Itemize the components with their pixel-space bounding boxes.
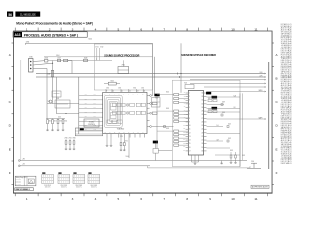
svg-text:a15: a15 bbox=[183, 142, 185, 144]
svg-text:9: 9 bbox=[209, 197, 211, 201]
svg-text:1-C5: 1-C5 bbox=[288, 115, 291, 117]
component 7620 box bbox=[185, 85, 194, 89]
vertical bus drop x152.5 bbox=[152, 43, 154, 96]
svg-text:2-F6: 2-F6 bbox=[260, 90, 263, 92]
wire junction up bbox=[52, 61, 54, 64]
svg-text:43n: 43n bbox=[85, 107, 87, 109]
small parts box left of decoder bbox=[152, 98, 161, 108]
IC 7740 body bbox=[103, 92, 147, 133]
svg-text:2147: 2147 bbox=[57, 58, 61, 60]
control block bbox=[84, 119, 99, 127]
IC 7740 nested block 1 bbox=[104, 95, 122, 127]
frame row ticks bbox=[12, 43, 275, 185]
vertical wire x129 below IC bbox=[128, 134, 130, 158]
IC 7740 nested block 2 bbox=[106, 97, 121, 125]
svg-text:4-C6: 4-C6 bbox=[288, 152, 291, 154]
resistor stack group 2 bbox=[174, 110, 179, 112]
crossing hops on buses bbox=[177, 73, 179, 75]
svg-text:A13: A13 bbox=[15, 33, 21, 37]
wire main bus y76.4 bbox=[36, 76, 265, 78]
transistor circuit bottom right bbox=[247, 167, 261, 169]
svg-text:3617: 3617 bbox=[208, 98, 211, 100]
svg-text:9-D6: 9-D6 bbox=[288, 102, 291, 104]
svg-text:+8V: +8V bbox=[22, 158, 25, 160]
svg-text:8-B: 8-B bbox=[94, 116, 96, 118]
svg-text:6104: 6104 bbox=[89, 39, 93, 41]
IC 7740 top inner pin names bbox=[105, 94, 144, 96]
sheet label A13 black box bbox=[13, 32, 22, 37]
IC 7740 right pin circles bbox=[147, 95, 152, 128]
svg-text:B: B bbox=[9, 77, 11, 81]
svg-text:14: 14 bbox=[144, 91, 146, 93]
capacitor 2147 bbox=[58, 59, 61, 61]
highlighted designator 7611 bbox=[206, 92, 211, 95]
bottom column numbers 1-11 bbox=[26, 197, 258, 201]
right edge arrows and labels bbox=[260, 72, 263, 120]
drop value labels bbox=[49, 121, 68, 123]
misc value labels bbox=[47, 58, 254, 162]
cluster 7750 box bbox=[73, 174, 85, 183]
highlighted designator 7610 bbox=[155, 94, 160, 97]
wire y60.5 from input bbox=[48, 60, 112, 62]
cluster 7740 box bbox=[42, 174, 54, 183]
svg-text:4-C6: 4-C6 bbox=[288, 163, 291, 165]
svg-text:9: 9 bbox=[209, 27, 211, 31]
svg-text:1: 1 bbox=[26, 197, 28, 201]
svg-text:1-C5: 1-C5 bbox=[288, 81, 291, 83]
cluster 7600 box bbox=[58, 174, 70, 183]
svg-text:DBX IN 44: DBX IN 44 bbox=[281, 123, 288, 125]
vertical wire x240 bbox=[239, 93, 241, 166]
svg-text:2751: 2751 bbox=[120, 136, 123, 138]
svg-text:3741: 3741 bbox=[95, 46, 98, 48]
IC 7600 right pins bbox=[204, 93, 207, 151]
filter box 1 with parts bbox=[52, 91, 61, 97]
IC 7740 right column blocks bbox=[136, 103, 140, 106]
decoder right wire labels bbox=[217, 90, 261, 142]
svg-text:1-C5: 1-C5 bbox=[288, 150, 291, 152]
svg-text:SOUND MULTIPLEX DECODER: SOUND MULTIPLEX DECODER bbox=[181, 54, 216, 57]
svg-text:4: 4 bbox=[95, 197, 97, 201]
svg-text:1-C5: 1-C5 bbox=[288, 92, 291, 94]
resistor stack group 1 bbox=[174, 94, 179, 96]
svg-text:2101 2102: 2101 2102 bbox=[44, 185, 51, 187]
svg-text:5-B: 5-B bbox=[94, 103, 96, 105]
svg-text:9-D6: 9-D6 bbox=[288, 33, 291, 35]
svg-text:SIF 4.5MZ: SIF 4.5MZ bbox=[281, 87, 288, 89]
svg-text:2-F6: 2-F6 bbox=[260, 75, 263, 77]
row letters A-F left and right bbox=[9, 53, 279, 175]
svg-text:E: E bbox=[276, 147, 278, 151]
IC 7740 nested block 4 bbox=[109, 101, 117, 121]
resistor 3149 bbox=[84, 59, 88, 61]
svg-text:3151: 3151 bbox=[49, 121, 52, 123]
component 7741 box bbox=[118, 67, 129, 74]
svg-text:9-D6: 9-D6 bbox=[288, 159, 291, 161]
svg-text:2201 2202: 2201 2202 bbox=[61, 185, 68, 187]
svg-text:3601: 3601 bbox=[166, 92, 169, 94]
svg-text:7620: 7620 bbox=[184, 83, 187, 85]
svg-text:TDA9840: TDA9840 bbox=[117, 128, 125, 131]
svg-text:2-F6: 2-F6 bbox=[260, 117, 263, 119]
svg-text:2-F: 2-F bbox=[234, 107, 236, 109]
svg-text:4-C6: 4-C6 bbox=[288, 140, 291, 142]
wire top bus y43 bbox=[25, 42, 152, 44]
filter box 2 bbox=[55, 100, 70, 108]
wire y113.5 to pin bus bbox=[56, 113, 79, 115]
svg-text:7: 7 bbox=[163, 197, 165, 201]
bottom right sheet reference box bbox=[251, 185, 269, 188]
capacitors right of decoder bbox=[221, 104, 223, 106]
svg-text:2622: 2622 bbox=[228, 138, 231, 140]
svg-text:7610: 7610 bbox=[155, 98, 158, 100]
IC 7740 nested block 3 bbox=[108, 99, 119, 123]
resistor stack group 3 bbox=[174, 130, 179, 132]
svg-text:SIF 4.5MZ: SIF 4.5MZ bbox=[281, 142, 288, 144]
chassis name bar bbox=[15, 12, 40, 17]
wire box to rail bbox=[155, 153, 157, 160]
parts under designator 3616 bbox=[208, 111, 212, 113]
group box sound source processor bbox=[94, 44, 152, 90]
svg-text:9-D6: 9-D6 bbox=[288, 91, 291, 93]
svg-text:46n: 46n bbox=[85, 120, 87, 122]
svg-text:a13: a13 bbox=[183, 135, 185, 137]
legend symbol bbox=[28, 179, 34, 184]
svg-text:9-D6: 9-D6 bbox=[288, 148, 291, 150]
svg-text:a17: a17 bbox=[183, 150, 185, 152]
svg-text:SIF INPUT: SIF INPUT bbox=[281, 64, 288, 66]
ground stub on rail bbox=[221, 161, 223, 162]
stack feed wires bbox=[157, 94, 174, 96]
svg-text:13: 13 bbox=[137, 91, 139, 93]
svg-text:a11: a11 bbox=[183, 128, 185, 130]
svg-text:56: 56 bbox=[8, 13, 12, 17]
wire supply rail y160 bbox=[20, 160, 248, 162]
svg-text:3104: 3104 bbox=[56, 55, 60, 57]
svg-text:3609: 3609 bbox=[166, 128, 169, 130]
svg-text:47n: 47n bbox=[85, 124, 87, 126]
svg-text:+5V: +5V bbox=[22, 163, 25, 165]
svg-text:44n: 44n bbox=[85, 111, 87, 113]
svg-text:1-C5: 1-C5 bbox=[288, 127, 291, 129]
svg-text:4-C6: 4-C6 bbox=[288, 117, 291, 119]
svg-text:3: 3 bbox=[72, 197, 74, 201]
svg-text:2621: 2621 bbox=[228, 124, 231, 126]
svg-text:3605: 3605 bbox=[166, 108, 169, 110]
svg-text:7630: 7630 bbox=[251, 161, 254, 163]
cluster 7610 highlighted label bbox=[88, 172, 91, 173]
svg-text:4-C6: 4-C6 bbox=[288, 60, 291, 62]
right frame border bbox=[271, 31, 274, 193]
wire y56.8 bbox=[44, 56, 153, 58]
top ruler line bbox=[13, 30, 272, 33]
rail terminal circles bbox=[18, 160, 20, 162]
tick at start of top bus bbox=[24, 43, 26, 45]
highlighted designator 3616 bbox=[212, 107, 218, 110]
svg-text:4-C6: 4-C6 bbox=[288, 49, 291, 51]
svg-text:7: 7 bbox=[163, 27, 165, 31]
component box below designator bbox=[153, 149, 158, 154]
svg-text:4-C6: 4-C6 bbox=[288, 26, 291, 28]
svg-text:4-E: 4-E bbox=[217, 140, 219, 142]
svg-text:SOUND SOURCE PROCESSOR: SOUND SOURCE PROCESSOR bbox=[104, 55, 139, 58]
top column numbers 1-11 bbox=[26, 27, 258, 31]
svg-text:3146: 3146 bbox=[47, 74, 51, 76]
IC 7740 matrix row 2 bbox=[113, 111, 117, 114]
svg-text:7146: 7146 bbox=[47, 101, 50, 103]
parts under designator 3615 bbox=[208, 100, 212, 102]
resistor 3147 bbox=[64, 59, 68, 61]
svg-text:a10: a10 bbox=[183, 124, 185, 126]
svg-text:100n 47u: 100n 47u bbox=[91, 187, 97, 189]
svg-text:10: 10 bbox=[112, 91, 114, 93]
svg-text:11: 11 bbox=[121, 91, 123, 93]
svg-text:5104: 5104 bbox=[126, 156, 129, 158]
svg-text:2745: 2745 bbox=[141, 87, 144, 89]
wire main bus y72.6 bbox=[36, 73, 265, 75]
svg-text:10: 10 bbox=[231, 197, 235, 201]
svg-text:3148: 3148 bbox=[56, 98, 59, 100]
svg-text:2619: 2619 bbox=[222, 102, 225, 104]
svg-text:1-D: 1-D bbox=[217, 125, 219, 127]
svg-text:4-C6: 4-C6 bbox=[288, 37, 291, 39]
svg-text:4-C6: 4-C6 bbox=[288, 106, 291, 108]
group inner vertical x242.5 bbox=[242, 93, 244, 160]
svg-text:Mono Painel: Processamento de: Mono Painel: Processamento de Audio (Ste… bbox=[16, 21, 93, 25]
svg-text:4-C6: 4-C6 bbox=[288, 129, 291, 131]
svg-text:a12: a12 bbox=[183, 132, 185, 134]
svg-text:9-D6: 9-D6 bbox=[288, 125, 291, 127]
svg-text:9-D6: 9-D6 bbox=[288, 113, 291, 115]
right bus wires upper bbox=[190, 79, 265, 81]
svg-text:4-B: 4-B bbox=[94, 98, 96, 100]
resistors right of IC 7740 bbox=[152, 102, 157, 104]
drop B x56.3 bbox=[55, 77, 57, 114]
caps below IC7740 pins bbox=[120, 138, 122, 143]
svg-text:11: 11 bbox=[254, 27, 257, 31]
cluster 7600 highlighted label bbox=[58, 172, 61, 173]
svg-text:8: 8 bbox=[186, 197, 188, 201]
svg-text:45n: 45n bbox=[85, 116, 87, 118]
svg-text:3153: 3153 bbox=[59, 121, 62, 123]
left frame border bbox=[12, 31, 15, 193]
svg-text:3625: 3625 bbox=[230, 150, 233, 152]
svg-text:6-B: 6-B bbox=[94, 107, 96, 109]
svg-text:5: 5 bbox=[118, 27, 120, 31]
svg-text:1-C5: 1-C5 bbox=[288, 161, 291, 163]
svg-text:11: 11 bbox=[254, 197, 257, 201]
group box sound multiplex decoder bbox=[172, 80, 240, 166]
svg-text:a16: a16 bbox=[183, 146, 185, 148]
bottom ruler line bbox=[13, 193, 272, 194]
svg-text:3-B: 3-B bbox=[94, 94, 96, 96]
svg-text:2: 2 bbox=[49, 197, 51, 201]
svg-text:4-C6: 4-C6 bbox=[288, 72, 291, 74]
svg-text:F: F bbox=[9, 171, 11, 175]
svg-text:1-C5: 1-C5 bbox=[288, 138, 291, 140]
svg-text:6: 6 bbox=[140, 197, 142, 201]
wire bus to drops bbox=[51, 103, 53, 105]
component 7445 bbox=[108, 82, 116, 85]
IC 7600 left pins bbox=[186, 93, 189, 151]
IC 7740 bottom-left extension bbox=[75, 128, 102, 136]
svg-text:1: 1 bbox=[26, 27, 28, 31]
IC 7600 left pin name labels bbox=[183, 92, 185, 152]
pin bus vertical x78.8 bbox=[78, 77, 80, 134]
drop A x52.5 with series resistor bbox=[52, 63, 54, 103]
caps at decoder bottom bbox=[230, 152, 232, 155]
svg-text:40n: 40n bbox=[85, 94, 87, 96]
wire y103.5 to pin bus bbox=[47, 103, 79, 105]
vertical wire x157 bbox=[156, 96, 158, 148]
svg-text:9-D6: 9-D6 bbox=[288, 79, 291, 81]
svg-text:3: 3 bbox=[72, 27, 74, 31]
svg-text:2743: 2743 bbox=[118, 87, 121, 89]
connector 1745 bbox=[29, 59, 34, 73]
highlighted designator 3615 bbox=[212, 96, 218, 99]
svg-text:1-C5: 1-C5 bbox=[288, 58, 291, 60]
vertical bus drop x154.5 bbox=[154, 57, 156, 96]
svg-text:2301 2302: 2301 2302 bbox=[76, 185, 83, 187]
wire supply rail y165 bbox=[20, 165, 151, 167]
svg-text:SOUND: SOUND bbox=[89, 121, 95, 123]
svg-text:DBX IN 44: DBX IN 44 bbox=[281, 68, 288, 70]
wire from designator area bbox=[155, 144, 157, 149]
top ruler ticks bbox=[15, 28, 267, 31]
junction y113.5 bbox=[65, 113, 66, 114]
svg-text:5: 5 bbox=[118, 197, 120, 201]
IC bottom pin drops with grounds bbox=[106, 138, 108, 145]
svg-text:1-C5: 1-C5 bbox=[288, 47, 291, 49]
junction node bbox=[52, 63, 53, 64]
svg-text:7445: 7445 bbox=[110, 80, 114, 82]
svg-text:48n: 48n bbox=[85, 129, 87, 131]
svg-text:3744: 3744 bbox=[133, 87, 136, 89]
svg-text:9-D6: 9-D6 bbox=[288, 68, 291, 70]
svg-text:2752: 2752 bbox=[125, 141, 128, 143]
svg-text:100n: 100n bbox=[58, 117, 61, 119]
svg-text:9-D6: 9-D6 bbox=[288, 136, 291, 138]
svg-text:1-C5: 1-C5 bbox=[288, 24, 291, 26]
wire stub 7741 bbox=[122, 60, 124, 66]
svg-text:1746: 1746 bbox=[29, 57, 33, 59]
svg-text:6: 6 bbox=[140, 27, 142, 31]
transistor 7146 circle bbox=[49, 100, 52, 103]
svg-text:2146: 2146 bbox=[44, 58, 48, 60]
svg-text:3618: 3618 bbox=[208, 109, 211, 111]
svg-text:4-C6: 4-C6 bbox=[288, 94, 291, 96]
svg-text:B: B bbox=[276, 77, 278, 81]
svg-text:2401 2402: 2401 2402 bbox=[91, 185, 98, 187]
svg-text:1-C5: 1-C5 bbox=[288, 104, 291, 106]
vertical wire x181 bbox=[180, 43, 182, 93]
svg-text:F: F bbox=[276, 171, 278, 175]
svg-text:E96 123 09060.1: E96 123 09060.1 bbox=[16, 189, 31, 191]
highlighted designator 7705 bbox=[153, 141, 158, 144]
IC 7740 bottom inner pin names bbox=[105, 132, 144, 134]
svg-text:3154: 3154 bbox=[64, 121, 67, 123]
svg-text:4-C6: 4-C6 bbox=[288, 83, 291, 85]
bottom ruler ticks bbox=[15, 193, 267, 196]
svg-text:3152: 3152 bbox=[54, 121, 57, 123]
IC 7740 lower small boxes bbox=[107, 120, 111, 123]
cluster 7610 box bbox=[88, 174, 100, 183]
svg-text:42n: 42n bbox=[85, 103, 87, 105]
IC 7740 top pins bbox=[106, 89, 143, 92]
connector pin wires bbox=[33, 60, 45, 63]
svg-text:8: 8 bbox=[186, 27, 188, 31]
svg-text:a14: a14 bbox=[183, 139, 185, 141]
group outer bottom line bbox=[148, 167, 251, 169]
svg-text:1-C5: 1-C5 bbox=[288, 70, 291, 72]
net cross-reference label column bbox=[281, 23, 292, 165]
IC 7740 innermost content bbox=[110, 103, 116, 110]
legend notes box bbox=[15, 176, 36, 186]
drawing number label bbox=[15, 188, 34, 191]
svg-text:100n 47u: 100n 47u bbox=[76, 187, 82, 189]
svg-text:2623: 2623 bbox=[242, 155, 245, 157]
junction x181 bus bbox=[180, 73, 181, 74]
wire box to group bbox=[158, 150, 172, 152]
grey collector bar bbox=[268, 62, 269, 169]
svg-text:9-D6: 9-D6 bbox=[288, 56, 291, 58]
wire y126.5 with transistor bbox=[152, 126, 174, 128]
svg-text:10: 10 bbox=[231, 27, 235, 31]
svg-text:100n 47u: 100n 47u bbox=[61, 187, 67, 189]
decoder right-side wires bbox=[207, 91, 266, 93]
IC 7740 matrix row 1 bbox=[113, 103, 117, 106]
pin wires to IC7740 with labels bbox=[79, 96, 103, 131]
svg-text:2: 2 bbox=[49, 27, 51, 31]
svg-text:1-C5: 1-C5 bbox=[288, 35, 291, 37]
svg-text:12: 12 bbox=[129, 91, 131, 93]
capacitor 2146 bbox=[45, 59, 48, 62]
svg-text:CONTROL: CONTROL bbox=[88, 124, 95, 126]
svg-text:CL 96532132E: CL 96532132E bbox=[20, 14, 36, 17]
svg-text:2-F6: 2-F6 bbox=[260, 72, 263, 74]
svg-text:2620: 2620 bbox=[222, 112, 225, 114]
IC 7740 bottom pins bbox=[107, 134, 145, 138]
svg-text:100n 47u: 100n 47u bbox=[45, 187, 51, 189]
svg-text:E: E bbox=[9, 147, 11, 151]
page number box bbox=[7, 12, 13, 17]
svg-text:7-B: 7-B bbox=[94, 111, 96, 113]
svg-text:3742: 3742 bbox=[100, 46, 103, 48]
svg-text:41n: 41n bbox=[85, 98, 87, 100]
svg-text:4: 4 bbox=[95, 27, 97, 31]
svg-text:9-D6: 9-D6 bbox=[288, 45, 291, 47]
svg-text:PROCESS. AUDIO (STEREO + SAP ): PROCESS. AUDIO (STEREO + SAP ) bbox=[24, 33, 78, 37]
svg-text:3149: 3149 bbox=[84, 57, 88, 59]
highlighted designator on extension bbox=[80, 128, 84, 130]
resistor drops with grounds bbox=[46, 118, 65, 120]
IC 7600 bottom pin drops bbox=[191, 155, 193, 162]
wire to bus bbox=[68, 60, 72, 62]
legend item rows bbox=[16, 178, 21, 186]
svg-text:11-B: 11-B bbox=[94, 129, 97, 131]
svg-text:2742: 2742 bbox=[106, 87, 109, 89]
svg-text:1746: 1746 bbox=[26, 42, 30, 44]
svg-text:SIF INPUT: SIF INPUT bbox=[281, 119, 288, 121]
shield wire down to rail bbox=[20, 60, 22, 161]
svg-text:SIF 4.5MZ: SIF 4.5MZ bbox=[281, 32, 288, 34]
IC 7600 decoder body bbox=[188, 91, 203, 156]
sheet title box bbox=[13, 32, 87, 37]
cluster 7750 highlighted label bbox=[73, 172, 76, 173]
cluster 7740 highlighted label bbox=[42, 172, 45, 173]
